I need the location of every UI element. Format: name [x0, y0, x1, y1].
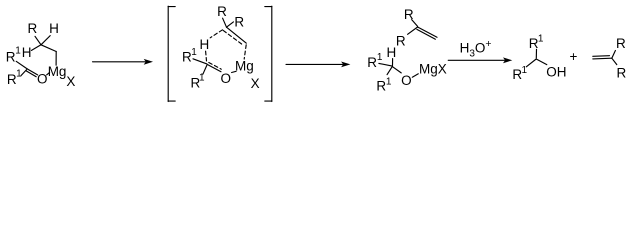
svg-text:X: X — [66, 74, 75, 89]
svg-text:R: R — [234, 14, 244, 29]
svg-text:1: 1 — [16, 68, 22, 79]
svg-text:X: X — [251, 76, 260, 91]
svg-text:R: R — [28, 21, 38, 36]
svg-text:MgX: MgX — [419, 61, 447, 76]
svg-text:1: 1 — [538, 34, 544, 45]
svg-text:OH: OH — [546, 64, 566, 79]
svg-text:1: 1 — [191, 47, 197, 58]
svg-text:H: H — [49, 21, 59, 36]
svg-text:R: R — [404, 7, 414, 22]
svg-text:O: O — [220, 71, 231, 86]
svg-text:+: + — [569, 49, 577, 64]
svg-text:R: R — [616, 36, 626, 51]
svg-text:R: R — [217, 4, 227, 19]
svg-text:H: H — [200, 37, 210, 52]
svg-text:O: O — [401, 73, 412, 88]
svg-text:H: H — [22, 45, 32, 60]
svg-text:O: O — [37, 71, 48, 86]
svg-text:Mg: Mg — [235, 58, 254, 73]
svg-text:Mg: Mg — [48, 64, 67, 79]
svg-text:1: 1 — [386, 76, 392, 87]
svg-text:1: 1 — [522, 65, 528, 76]
svg-text:R: R — [6, 49, 16, 64]
svg-text:R: R — [367, 55, 377, 70]
svg-text:R: R — [617, 65, 627, 80]
svg-text:R: R — [376, 79, 386, 94]
svg-text:R: R — [396, 33, 406, 48]
svg-text:1: 1 — [15, 45, 21, 56]
svg-text:1: 1 — [377, 52, 383, 63]
svg-text:H: H — [387, 45, 397, 60]
svg-text:1: 1 — [199, 73, 205, 84]
